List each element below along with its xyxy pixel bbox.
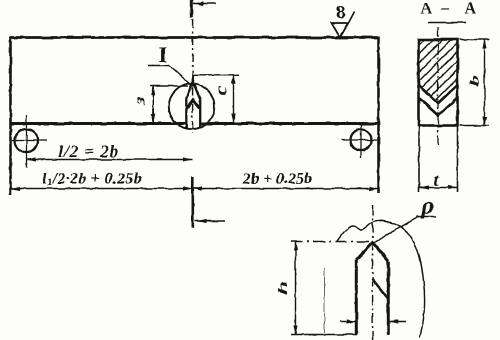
notch V tip xyxy=(186,82,200,100)
svg-text:t: t xyxy=(434,170,440,190)
specimen bar bottom edge right part xyxy=(200,122,379,125)
dim2 arrow left xyxy=(11,186,21,190)
svg-text:з: з xyxy=(131,97,148,106)
left notch depth dimension line xyxy=(152,86,154,123)
b dim arrow up xyxy=(482,40,486,49)
detail slot right edge xyxy=(387,261,390,335)
svg-text:b: b xyxy=(468,75,482,87)
section cut mark bottom arrow line xyxy=(195,220,225,222)
specimen bar right edge with extension xyxy=(377,37,380,194)
left notch depth extension line xyxy=(151,85,189,87)
right notch depth extension line xyxy=(194,74,239,76)
t dim arrow left xyxy=(419,185,429,189)
detail notch V xyxy=(356,243,388,262)
t dim arrow right xyxy=(448,185,458,189)
section cut mark bottom arrowhead xyxy=(197,219,207,223)
svg-text:A: A xyxy=(465,1,477,18)
svg-text:l/2 = 2b: l/2 = 2b xyxy=(58,142,119,161)
rho leader xyxy=(374,217,420,243)
section chevron lower xyxy=(419,98,458,116)
b dim arrow down xyxy=(482,117,486,126)
dim3 arrow right xyxy=(369,186,379,190)
svg-text:8: 8 xyxy=(336,2,346,24)
slot width arrow right xyxy=(389,321,406,323)
detail centerline xyxy=(372,205,374,340)
detail stray line xyxy=(324,268,326,333)
dimension line L/2 = 2b xyxy=(27,159,193,161)
section cut mark top arrowhead xyxy=(195,1,205,5)
h dimension line xyxy=(295,242,297,335)
notch inner chevron xyxy=(187,100,199,108)
left dim arrow up xyxy=(151,86,155,95)
right dim arrow down xyxy=(231,114,235,123)
notch tip spike xyxy=(192,75,194,87)
section centerline xyxy=(437,27,439,145)
b dimension line xyxy=(484,40,486,126)
slot width arrow left xyxy=(341,321,357,323)
section A-A label underline xyxy=(428,22,466,24)
support hole left vertical centerline xyxy=(26,115,28,168)
right dim arrow up xyxy=(231,75,235,84)
roughness symbol triangle xyxy=(332,23,349,38)
detail slot left edge xyxy=(355,260,358,335)
section cut mark top arrow line xyxy=(193,3,217,5)
section view outline xyxy=(419,40,458,126)
notch slot left edge xyxy=(185,99,187,129)
right notch depth dimension line xyxy=(233,75,235,123)
support hole right vertical centerline xyxy=(360,122,362,158)
support hole right xyxy=(351,130,372,151)
h dimension bottom extension xyxy=(291,334,357,336)
svg-text:–: – xyxy=(440,0,450,17)
dimension line L1/2·2b+0.25b xyxy=(11,188,193,190)
svg-text:h: h xyxy=(276,281,290,295)
b dimension bottom extension xyxy=(460,125,490,127)
dim2 arrow right xyxy=(183,186,193,190)
dimension line 2b+0.25b xyxy=(193,188,379,190)
section chevron upper xyxy=(419,85,458,104)
rho underline xyxy=(417,216,436,218)
section cut mark bottom vertical xyxy=(192,177,195,228)
detail circle I xyxy=(169,84,215,130)
h dim arrow down xyxy=(293,326,297,335)
svg-text:ρ: ρ xyxy=(421,194,434,220)
h dim arrow up xyxy=(293,242,297,251)
dim1 arrow left xyxy=(27,157,37,161)
detail inner diagonal xyxy=(372,279,388,299)
b dimension top extension xyxy=(460,39,490,41)
detail label I leader xyxy=(148,66,191,85)
svg-text:I: I xyxy=(159,42,168,67)
support hole left xyxy=(15,129,38,152)
specimen bar bottom edge left part xyxy=(10,122,187,125)
detail wavy break line xyxy=(337,220,425,337)
svg-text:2b + 0.25b: 2b + 0.25b xyxy=(242,171,312,188)
section hatching xyxy=(404,20,496,125)
svg-text:с: с xyxy=(213,85,231,95)
notch slot right edge xyxy=(199,100,201,129)
t dimension right projection xyxy=(457,126,459,193)
dim3 arrow left xyxy=(193,186,203,190)
h dimension top extension (dash-dot) xyxy=(291,241,373,243)
t dimension line xyxy=(419,187,458,189)
svg-text:l1/2·2b + 0.25b: l1/2·2b + 0.25b xyxy=(42,171,142,189)
support hole left horizontal centerline xyxy=(12,140,47,142)
t dimension left projection xyxy=(418,126,420,193)
support hole right horizontal centerline xyxy=(341,139,378,141)
section cut mark top vertical xyxy=(190,0,193,18)
specimen bar left edge with extension xyxy=(9,37,12,196)
notch centerline (dash-dot) xyxy=(192,19,194,134)
roughness check line xyxy=(349,12,355,24)
dim1 arrow right xyxy=(183,157,193,161)
left dim arrow down xyxy=(151,114,155,123)
svg-text:A: A xyxy=(421,1,433,18)
specimen bar top edge xyxy=(11,36,379,39)
